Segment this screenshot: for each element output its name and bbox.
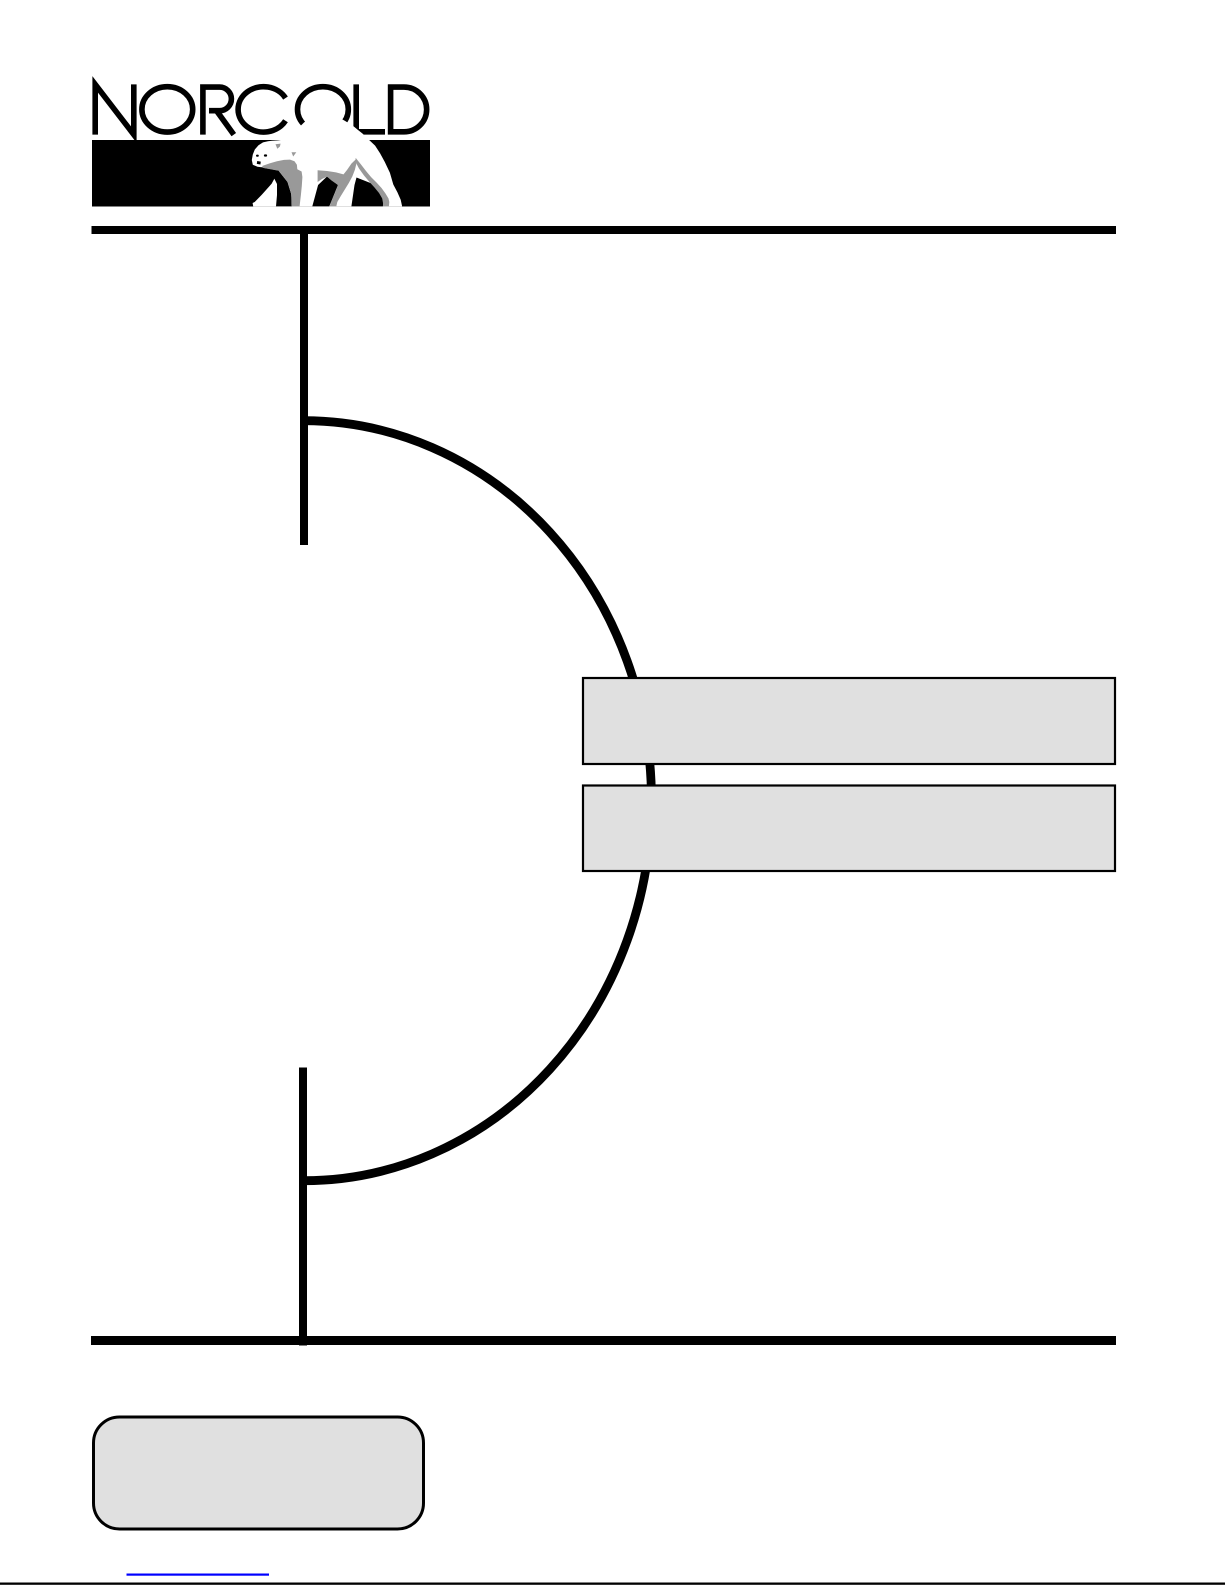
bear gray belly and far-hind leg shading — [318, 159, 357, 206]
bear leg gap hind-mid (black) — [351, 178, 384, 207]
top vertical rule — [300, 226, 308, 545]
gray box 2 — [583, 786, 1115, 872]
gray box 1 — [583, 678, 1115, 764]
bear gray jaw sliver — [262, 166, 281, 171]
polar bear body (white) — [252, 112, 402, 207]
letter O1 — [142, 87, 193, 132]
letter L — [356, 84, 385, 131]
top horizontal rule — [92, 226, 1117, 234]
bottom vertical rule — [299, 1068, 307, 1346]
bear gray near-hind leg strip — [355, 158, 389, 206]
letter O2 — [298, 87, 349, 132]
letter N — [95, 84, 134, 134]
bear leg gap under chin (black) — [262, 168, 291, 207]
bear gray chest/front-leg shading — [262, 160, 302, 207]
rounded callout box — [94, 1417, 424, 1529]
bear eye dash left — [256, 155, 259, 157]
NORCOLD logotype — [95, 84, 426, 134]
page bottom edge line — [0, 1583, 1225, 1585]
bear gray shoulder notch — [292, 152, 297, 156]
large half-circle arc — [304, 421, 651, 1181]
bear leg gap front-mid (black) — [312, 177, 338, 207]
bear gray ear mark — [276, 144, 281, 149]
bear eye dash right — [264, 154, 267, 156]
black banner rectangle — [92, 140, 430, 207]
letter D — [388, 84, 427, 134]
blue link underline — [127, 1574, 270, 1576]
letter C — [238, 87, 285, 132]
bear nose — [257, 161, 261, 165]
bottom horizontal rule — [91, 1336, 1116, 1345]
letter R — [203, 87, 234, 135]
